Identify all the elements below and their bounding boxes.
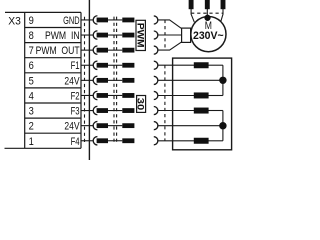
svg-text:24V: 24V <box>64 75 79 87</box>
svg-text:PWM OUT: PWM OUT <box>36 45 80 57</box>
svg-text:230V~: 230V~ <box>193 30 224 42</box>
svg-text:4: 4 <box>29 91 34 103</box>
svg-text:2: 2 <box>29 121 34 133</box>
svg-text:24V: 24V <box>64 121 79 133</box>
svg-text:F3: F3 <box>71 106 80 118</box>
svg-text:F2: F2 <box>71 91 80 103</box>
svg-text:9: 9 <box>29 15 34 27</box>
svg-text:7: 7 <box>29 45 34 57</box>
svg-text:6: 6 <box>29 60 34 72</box>
svg-text:PWM: PWM <box>135 23 145 48</box>
svg-text:5: 5 <box>29 75 34 87</box>
svg-text:GND: GND <box>63 15 80 27</box>
svg-text:3: 3 <box>29 106 34 118</box>
svg-text:30: 30 <box>134 98 145 110</box>
svg-text:PWM IN: PWM IN <box>45 30 80 42</box>
svg-text:F1: F1 <box>71 60 80 72</box>
svg-text:X3: X3 <box>8 15 21 27</box>
svg-text:F4: F4 <box>71 136 80 148</box>
svg-text:1: 1 <box>29 136 34 148</box>
svg-text:8: 8 <box>29 30 34 42</box>
